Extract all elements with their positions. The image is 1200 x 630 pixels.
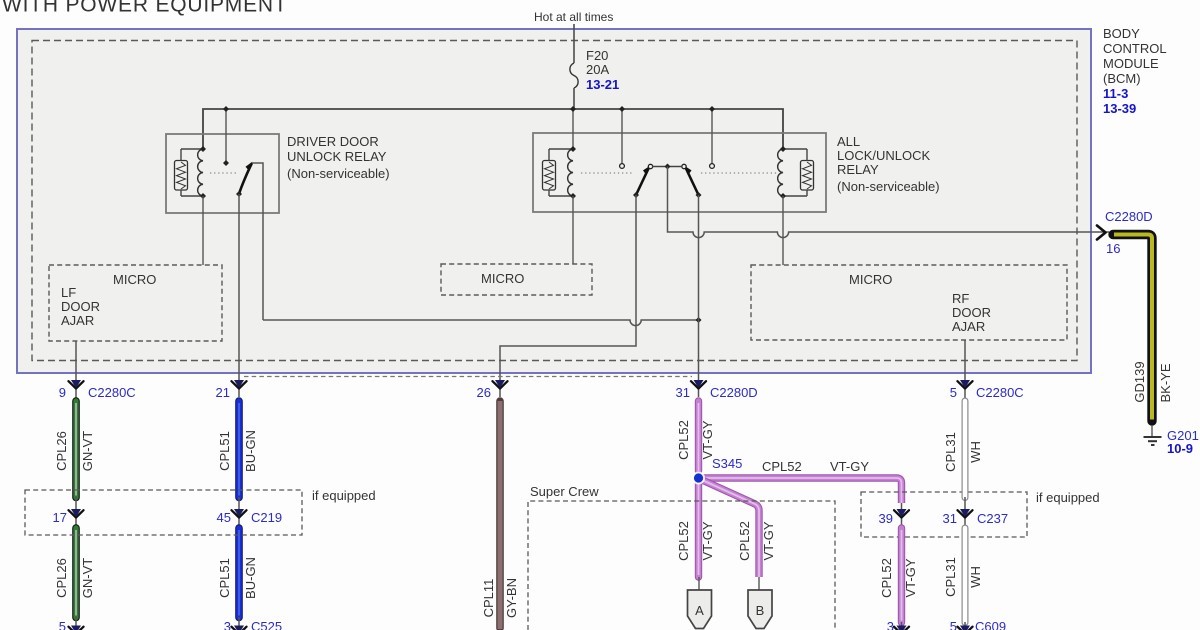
- wire LF ajar to pin 9: [75, 341, 77, 400]
- wire WH lower segment: [962, 528, 969, 623]
- svg-text:13-39: 13-39: [1103, 101, 1136, 116]
- svg-text:C2280C: C2280C: [976, 385, 1024, 400]
- wire GN-VT upper segment: [72, 401, 80, 498]
- wire bus drop NO contact 2: [711, 109, 713, 164]
- MICRO box 2: [441, 264, 592, 295]
- svg-text:UNLOCK RELAY: UNLOCK RELAY: [287, 149, 387, 164]
- svg-text:Hot at all times: Hot at all times: [534, 10, 613, 24]
- svg-text:Super Crew: Super Crew: [530, 484, 599, 499]
- svg-text:VT-GY: VT-GY: [903, 558, 918, 597]
- contact circle: [710, 164, 715, 169]
- svg-text:B: B: [756, 603, 765, 618]
- svg-text:VT-GY: VT-GY: [761, 521, 776, 560]
- svg-text:WH: WH: [968, 566, 983, 588]
- wire fuse to bus: [573, 88, 575, 109]
- resistor R1 (driver relay coil suppression): [175, 149, 188, 196]
- svg-text:BU-GN: BU-GN: [243, 557, 258, 599]
- fuse F20 20A: [570, 63, 578, 88]
- wire from Hot at all times to fuse: [573, 24, 575, 63]
- wire lower horizontal to pin31 junction (hop at 635.5): [263, 320, 699, 326]
- pin 26 connector symbol: [493, 380, 508, 389]
- wire BU-GN upper segment: [235, 401, 243, 498]
- connector B: [748, 577, 772, 629]
- svg-text:10-9: 10-9: [1167, 441, 1193, 456]
- svg-text:VT-GY: VT-GY: [700, 420, 715, 459]
- wire between arm tops: [652, 166, 682, 168]
- svg-text:(Non-serviceable): (Non-serviceable): [837, 179, 940, 194]
- wire bus drop to left coil: [572, 109, 574, 149]
- wire SW2b bottom to pin 31: [698, 195, 700, 397]
- svg-text:AJAR: AJAR: [61, 313, 94, 328]
- svg-text:if equipped: if equipped: [1036, 490, 1100, 505]
- pin 5 connector symbol: [958, 380, 973, 389]
- node arm bottom: [236, 191, 242, 197]
- svg-text:LOCK/UNLOCK: LOCK/UNLOCK: [837, 148, 931, 163]
- svg-text:VT-GY: VT-GY: [830, 459, 869, 474]
- dotted actuation link left: [581, 172, 633, 174]
- svg-text:26: 26: [477, 385, 491, 400]
- svg-text:GN-VT: GN-VT: [80, 558, 95, 599]
- in-line connector pin 45 C219: [232, 509, 247, 518]
- svg-text:BK-YE: BK-YE: [1158, 363, 1173, 402]
- wire GN-VT lower segment: [72, 528, 80, 618]
- svg-text:GD139: GD139: [1132, 361, 1147, 402]
- switch arm SW1 (driver relay): [239, 162, 252, 194]
- resistor R3 (right coil suppression): [801, 149, 814, 196]
- node coil bottom: [200, 193, 206, 199]
- inductor L3 (right coil): [778, 149, 807, 196]
- svg-text:ALL: ALL: [837, 134, 860, 149]
- svg-text:CPL52: CPL52: [676, 420, 691, 460]
- connector A: [688, 577, 712, 629]
- wire switch output to lower bus: [252, 163, 263, 320]
- svg-text:C237: C237: [977, 511, 1008, 526]
- svg-text:16: 16: [1106, 241, 1120, 256]
- contact circle: [620, 164, 625, 169]
- contact (driver relay fixed contact): [223, 160, 229, 166]
- relay U2 all lock/unlock relay box: [533, 133, 826, 212]
- MICRO box 3: [751, 265, 1067, 340]
- inductor L1 (driver relay coil): [181, 149, 203, 196]
- switch arm SW2b: [682, 164, 699, 195]
- svg-text:CPL52: CPL52: [762, 459, 802, 474]
- wire WH upper segment: [962, 401, 969, 498]
- svg-text:LF: LF: [61, 285, 76, 300]
- wire coil bottom to MICRO: [202, 196, 204, 265]
- svg-text:3: 3: [887, 619, 894, 630]
- svg-text:GN-VT: GN-VT: [80, 431, 95, 472]
- svg-text:BU-GN: BU-GN: [243, 430, 258, 472]
- node coil top: [200, 146, 206, 152]
- svg-text:CPL51: CPL51: [217, 431, 232, 471]
- wire VT-GY through pin 39: [901, 503, 903, 530]
- svg-text:C2280D: C2280D: [1105, 209, 1153, 224]
- svg-text:RF: RF: [952, 291, 969, 306]
- node junction at pin31 wire: [696, 317, 702, 323]
- svg-text:(BCM): (BCM): [1103, 71, 1141, 86]
- wire VT-GY below splice to A: [695, 481, 702, 577]
- wire VT-GY from pin 31 to splice: [695, 401, 702, 471]
- in-line connector pin 17: [69, 509, 84, 518]
- Super Crew box: [528, 501, 835, 630]
- svg-text:F20: F20: [586, 48, 608, 63]
- svg-text:if equipped: if equipped: [312, 488, 376, 503]
- svg-text:RELAY: RELAY: [837, 162, 879, 177]
- svg-text:CPL52: CPL52: [676, 521, 691, 561]
- BCM inner dashed border: [32, 41, 1077, 361]
- svg-text:39: 39: [879, 511, 893, 526]
- pin 9 connector symbol: [69, 380, 84, 389]
- wire GY-BN: [496, 401, 504, 629]
- wire right coil to MICRO: [782, 196, 784, 265]
- svg-text:C525: C525: [251, 619, 282, 630]
- MICRO box 1: [49, 265, 222, 341]
- svg-text:CPL11: CPL11: [481, 579, 496, 618]
- if equipped box right: [861, 492, 1027, 537]
- bottom connector pin 5: [69, 626, 84, 630]
- svg-text:31: 31: [943, 511, 957, 526]
- svg-text:(Non-serviceable): (Non-serviceable): [287, 166, 390, 181]
- svg-text:MICRO: MICRO: [481, 271, 524, 286]
- pin 31 connector symbol: [691, 380, 706, 389]
- svg-text:45: 45: [217, 510, 231, 525]
- wire through if-equipped connector: [75, 497, 77, 530]
- wire bus drop NO contact 1: [621, 109, 623, 164]
- svg-text:C2280C: C2280C: [88, 385, 136, 400]
- svg-text:DOOR: DOOR: [61, 299, 100, 314]
- svg-text:5: 5: [950, 619, 957, 630]
- svg-text:WH: WH: [968, 441, 983, 463]
- BCM module box: [17, 29, 1091, 373]
- svg-text:20A: 20A: [586, 62, 609, 77]
- svg-text:5: 5: [59, 619, 66, 630]
- svg-text:VT-GY: VT-GY: [700, 521, 715, 560]
- svg-text:AJAR: AJAR: [952, 319, 985, 334]
- wire BK-YE from C2280D 16 to ground: [1113, 235, 1152, 422]
- svg-text:21: 21: [216, 385, 230, 400]
- dotted actuation link: [210, 172, 236, 174]
- svg-text:CONTROL: CONTROL: [1103, 41, 1167, 56]
- svg-text:13-21: 13-21: [586, 77, 619, 92]
- svg-text:5: 5: [950, 385, 957, 400]
- svg-text:DOOR: DOOR: [952, 305, 991, 320]
- svg-text:11-3: 11-3: [1103, 86, 1128, 101]
- pin 21 connector symbol: [232, 380, 247, 389]
- svg-text:CPL26: CPL26: [54, 431, 69, 471]
- node bus junction: [223, 106, 229, 112]
- svg-text:C219: C219: [251, 510, 282, 525]
- svg-text:MICRO: MICRO: [849, 272, 892, 287]
- svg-text:MICRO: MICRO: [113, 272, 156, 287]
- svg-text:CPL31: CPL31: [943, 557, 958, 597]
- svg-text:31: 31: [676, 385, 690, 400]
- resistor R2 (left coil suppression): [543, 149, 556, 196]
- svg-text:A: A: [695, 603, 704, 618]
- arrow BCM exit: [1097, 226, 1106, 240]
- wire VT-GY horizontal branch to right: [699, 478, 902, 503]
- svg-text:CPL52: CPL52: [879, 558, 894, 598]
- wire left coil to MICRO: [572, 196, 574, 264]
- relay U1 driver door unlock relay box: [166, 134, 279, 213]
- svg-text:C609: C609: [975, 619, 1006, 630]
- wire bus drop to NO contact: [225, 109, 227, 161]
- svg-text:CPL26: CPL26: [54, 558, 69, 598]
- in-line connector pin 31 C237: [958, 509, 973, 518]
- wire VT-GY lower right segment: [898, 528, 905, 623]
- svg-text:CPL51: CPL51: [217, 558, 232, 598]
- svg-text:S345: S345: [712, 456, 742, 471]
- svg-text:DRIVER DOOR: DRIVER DOOR: [287, 134, 379, 149]
- dotted actuation link right: [701, 172, 778, 174]
- wire common output to BCM exit (hops at 698.5 and 783): [668, 167, 1110, 238]
- if equipped box left: [25, 490, 302, 535]
- switch arm SW2a: [636, 164, 653, 195]
- inductor L2 (left coil): [549, 149, 573, 196]
- wire SW2a bottom to pin 26: [500, 195, 636, 397]
- svg-text:3: 3: [224, 619, 231, 630]
- svg-text:17: 17: [53, 510, 67, 525]
- splice S345: [692, 472, 705, 485]
- svg-text:C2280D: C2280D: [710, 385, 758, 400]
- wire RF ajar to pin 5: [964, 340, 966, 400]
- svg-text:9: 9: [59, 385, 66, 400]
- power bus: [203, 109, 783, 149]
- dashed connector link C2280D pins 21-26-31: [244, 376, 692, 378]
- ground G201: [1144, 425, 1162, 445]
- bottom connector pin 3 C525: [232, 626, 247, 630]
- wire BU-GN lower segment: [235, 528, 243, 618]
- wire pin 21: [238, 194, 240, 397]
- svg-text:CPL52: CPL52: [737, 521, 752, 561]
- svg-text:CPL31: CPL31: [943, 432, 958, 472]
- wire VT-GY diagonal branch to B: [701, 480, 759, 578]
- svg-text:GY-BN: GY-BN: [504, 578, 519, 618]
- svg-text:MODULE: MODULE: [1103, 56, 1159, 71]
- svg-text:WITH POWER EQUIPMENT: WITH POWER EQUIPMENT: [2, 0, 288, 17]
- svg-text:BODY: BODY: [1103, 26, 1140, 41]
